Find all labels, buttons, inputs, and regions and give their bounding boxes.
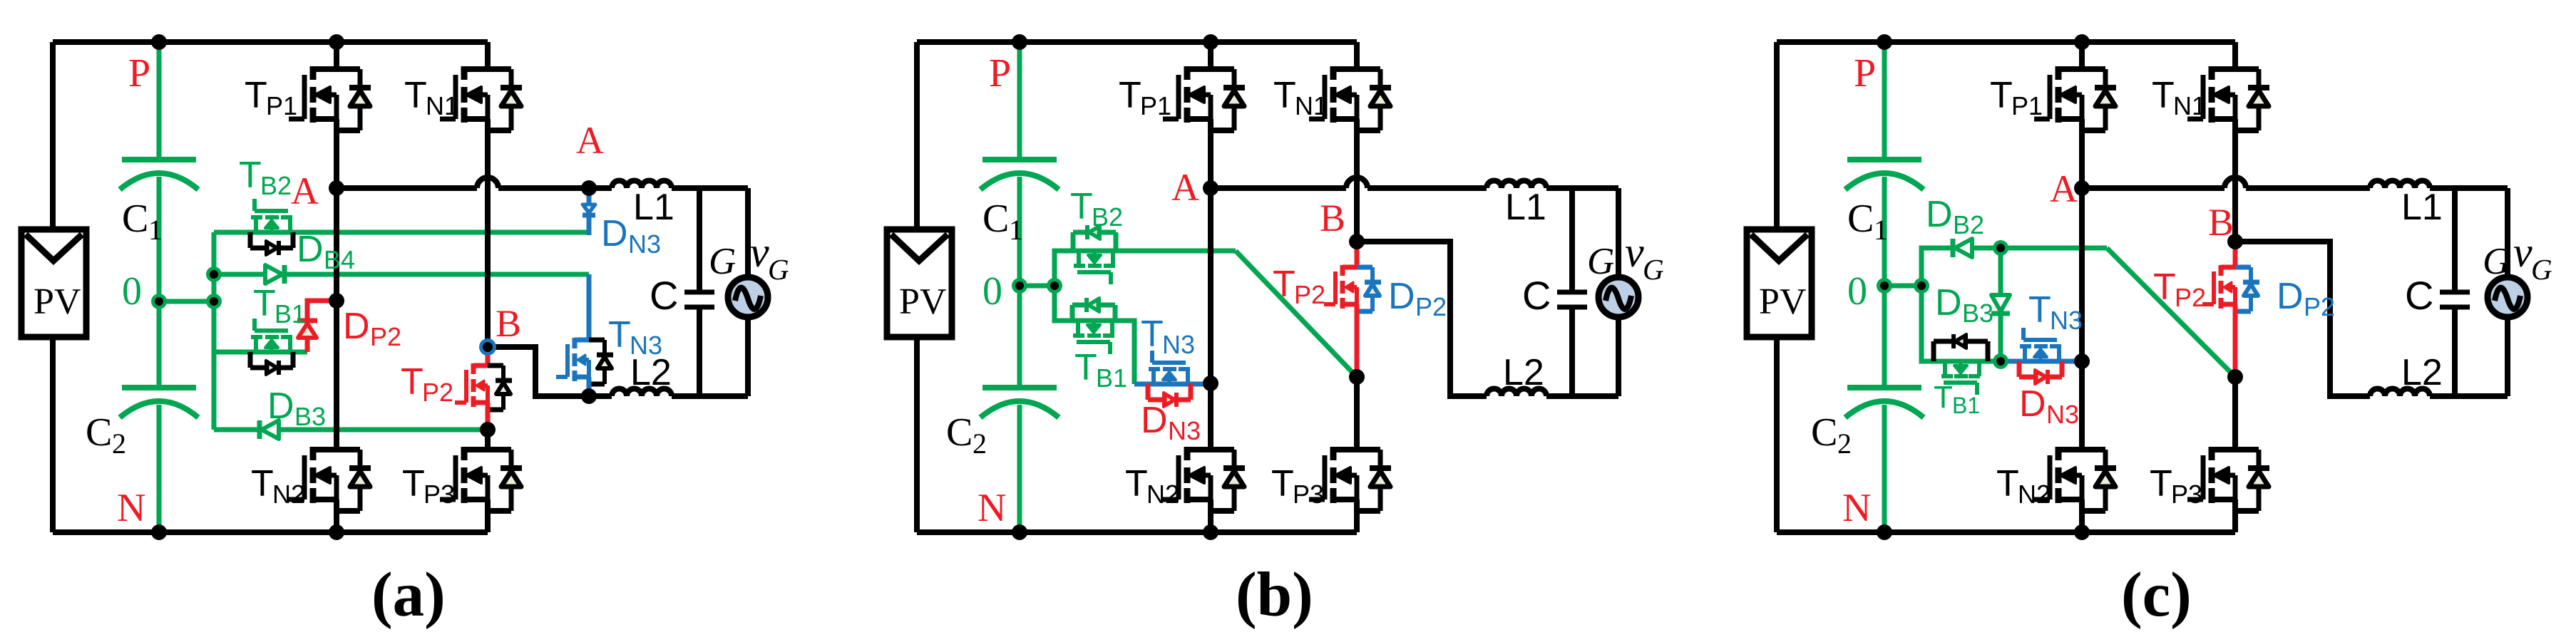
transistor TN1	[2187, 66, 2269, 130]
wire left side down to PV	[914, 42, 920, 229]
svg-text:G: G	[2483, 241, 2510, 282]
svg-text:D: D	[2019, 383, 2046, 425]
diode DB4	[265, 265, 282, 284]
svg-text:P3: P3	[2171, 480, 2202, 509]
node A	[329, 180, 344, 196]
wire TP3 source to bottom rail	[485, 499, 491, 532]
svg-text:B1: B1	[1096, 363, 1127, 393]
AC source vG branch	[745, 188, 751, 279]
transistor TB1	[1934, 334, 1988, 395]
wire TN2 source to bottom rail	[334, 499, 339, 532]
svg-text:N2: N2	[1146, 480, 1179, 509]
wire TB1 row	[214, 350, 307, 355]
svg-text:P3: P3	[424, 480, 455, 509]
svg-text:PV: PV	[34, 281, 81, 322]
wire TN3 row (blue)	[1134, 382, 1211, 387]
wire L1 to right edge	[1546, 185, 1618, 191]
node TP2 lower	[480, 422, 496, 438]
node bottom of left leg	[329, 524, 344, 540]
wire PV to bottom rail	[914, 337, 920, 532]
wire TN2 source to bottom rail	[2079, 499, 2085, 532]
wire right bridge leg upper	[2232, 42, 2238, 69]
svg-text:T: T	[1271, 463, 1294, 504]
node 0	[1877, 278, 1892, 294]
wire node0 to branch split	[1884, 284, 1921, 289]
svg-text:N3: N3	[1162, 330, 1195, 359]
svg-text:P: P	[128, 51, 150, 95]
svg-text:C: C	[1847, 197, 1874, 241]
capacitor C1	[122, 157, 196, 162]
wire right bridge leg upper	[485, 42, 491, 69]
transistor TB1	[1072, 298, 1115, 354]
svg-text:T: T	[2028, 289, 2051, 331]
transistor TP2 red leg segment	[486, 347, 491, 366]
wire left leg A to TN2	[334, 188, 339, 450]
AC source vG	[728, 277, 768, 317]
transistor TB2	[1073, 225, 1116, 284]
wire top rail	[917, 39, 1357, 45]
transistor TP1	[2034, 66, 2116, 130]
node top of left leg	[2074, 34, 2090, 50]
node B	[479, 338, 496, 356]
wire left bridge leg upper	[334, 42, 339, 69]
wire P-to-C1 (green DC-link column)	[157, 42, 162, 160]
wire TP1 source to node A	[334, 119, 339, 188]
wire TN3 source to L2 node	[587, 377, 592, 396]
svg-text:B: B	[2208, 201, 2234, 244]
wire C2-to-N	[1017, 405, 1022, 532]
svg-text:N1: N1	[2173, 91, 2206, 120]
wire TN1 source down to node B	[485, 119, 491, 347]
branch column (green vertical)	[212, 232, 217, 430]
svg-text:T: T	[404, 75, 427, 116]
svg-text:2: 2	[1837, 428, 1852, 460]
svg-text:T: T	[1273, 264, 1295, 305]
branch split down to TB1 row	[1921, 286, 2001, 361]
node DP2 tap	[329, 293, 344, 309]
svg-text:N1: N1	[426, 91, 458, 120]
node bottom of left leg	[2074, 524, 2090, 540]
svg-text:A: A	[576, 119, 604, 162]
branch split up to DB2 row	[1921, 248, 2001, 286]
svg-text:0: 0	[982, 269, 1002, 314]
svg-text:N2: N2	[272, 480, 305, 509]
wire node0 to branch split	[1020, 284, 1054, 289]
transistor TP3	[2187, 447, 2269, 511]
svg-text:L2: L2	[2401, 352, 2443, 393]
svg-text:C: C	[1811, 410, 1837, 455]
svg-text:P3: P3	[1293, 480, 1324, 509]
inductor L1	[1487, 181, 1546, 188]
svg-text:N: N	[977, 486, 1006, 530]
svg-text:G: G	[1587, 241, 1614, 282]
svg-text:D: D	[343, 306, 370, 347]
node P	[1012, 34, 1027, 50]
svg-text:D: D	[267, 385, 294, 427]
wire node A to L1 with crossover hop	[337, 185, 477, 191]
svg-text:B1: B1	[274, 299, 306, 328]
wire C2-to-N	[157, 405, 162, 532]
transistor TN3	[1148, 351, 1191, 407]
svg-text:B1: B1	[1952, 393, 1980, 418]
PV source	[21, 229, 86, 337]
wire right leg lower segment	[1354, 377, 1360, 450]
svg-text:v: v	[2513, 229, 2533, 276]
transistor TN2	[289, 447, 371, 511]
wire PV to bottom rail	[1774, 337, 1780, 532]
svg-text:(c): (c)	[2121, 560, 2192, 630]
transistor TN1	[1309, 66, 1391, 130]
wire P-to-C1 (green DC-link column)	[1882, 42, 1887, 160]
branch split to TB2 (up)	[1054, 251, 1236, 286]
svg-text:L1: L1	[633, 187, 674, 228]
wire L1 to right edge	[672, 185, 748, 191]
node A	[2074, 180, 2090, 196]
svg-text:N: N	[117, 486, 145, 530]
node 0	[151, 294, 167, 309]
inductor L2	[2370, 389, 2430, 397]
wire left bridge leg upper	[2079, 42, 2085, 69]
wire PV to bottom rail	[50, 337, 56, 532]
wire DB4 row	[214, 272, 589, 277]
wire bottom rail	[53, 529, 488, 535]
wire C1-to-C2 through node 0	[1882, 177, 1887, 388]
PV source	[887, 229, 952, 337]
svg-text:T: T	[1996, 463, 2019, 504]
wire TN3 row (blue)	[2001, 359, 2082, 364]
svg-text:P1: P1	[1140, 91, 1171, 120]
node A output	[581, 180, 597, 196]
transistor TP3	[1309, 447, 1391, 511]
svg-text:L2: L2	[1503, 352, 1544, 393]
node top of left leg	[329, 34, 344, 50]
svg-text:B2: B2	[1953, 210, 1984, 239]
svg-text:D: D	[2277, 276, 2304, 317]
svg-text:L1: L1	[2401, 187, 2443, 228]
capacitor C2	[1847, 385, 1921, 390]
svg-text:T: T	[1141, 314, 1164, 355]
svg-text:T: T	[1273, 75, 1296, 116]
AC source vG branch	[2505, 188, 2510, 279]
svg-text:N3: N3	[628, 229, 661, 259]
svg-text:G: G	[709, 241, 736, 282]
wire node0 to branch column	[159, 299, 214, 304]
AC source vG	[1599, 277, 1638, 317]
svg-text:0: 0	[122, 269, 142, 314]
transistor TB1	[250, 319, 293, 375]
svg-text:T: T	[253, 283, 276, 324]
wire TN2 source to bottom rail	[1208, 499, 1213, 532]
node branch split	[1047, 278, 1062, 294]
svg-text:B: B	[1320, 197, 1345, 239]
node TN3 on left leg	[2074, 353, 2090, 369]
wire B to output bottom	[1357, 242, 1487, 396]
wire left side down to PV	[50, 42, 56, 229]
svg-text:N2: N2	[2018, 480, 2051, 509]
svg-text:T: T	[1125, 463, 1148, 504]
svg-text:A: A	[1171, 166, 1199, 209]
capacitor C1	[1847, 157, 1921, 162]
node on branch column (0 row)	[206, 294, 222, 309]
wire left bridge leg upper	[1208, 42, 1213, 69]
svg-text:T: T	[251, 463, 274, 504]
node top of left leg	[1203, 34, 1218, 50]
diode DB3 vertical	[1998, 248, 2003, 295]
node TB1/TN3 junction	[1993, 353, 2008, 369]
svg-text:D: D	[601, 213, 628, 254]
svg-text:T: T	[401, 361, 424, 403]
transistor TP1	[1163, 66, 1245, 130]
svg-text:2: 2	[973, 428, 987, 460]
wire bottom rail	[917, 529, 1357, 535]
branch split to TB1 (down)	[1054, 286, 1134, 384]
transistor TN3	[2019, 328, 2062, 384]
svg-text:B4: B4	[324, 245, 355, 274]
wire B to output bottom	[2235, 242, 2370, 396]
svg-text:0: 0	[1847, 269, 1867, 314]
node branch split	[1914, 278, 1929, 294]
transistor TN2	[1163, 447, 1245, 511]
diagonal link to lower B-leg node	[2107, 248, 2235, 377]
wire TP3 source to bottom rail	[1354, 499, 1360, 532]
node DB2/DB3 junction	[1993, 240, 2008, 256]
wire C1-to-C2 through node 0	[157, 177, 162, 388]
svg-text:G: G	[1643, 253, 1664, 286]
svg-text:B2: B2	[1092, 202, 1123, 232]
transistor TN2	[2034, 447, 2116, 511]
circuit (c)	[1747, 34, 2528, 540]
svg-text:T: T	[402, 463, 425, 504]
svg-text:P2: P2	[422, 378, 453, 407]
svg-text:D: D	[297, 229, 324, 270]
wire C2-to-N	[1882, 405, 1887, 532]
wire DB3 row	[214, 428, 488, 433]
capacitor C2	[982, 385, 1057, 390]
svg-text:PV: PV	[1759, 281, 1806, 322]
diode DB2	[1955, 239, 1972, 257]
circuit (b)	[887, 34, 1638, 540]
node N	[151, 524, 167, 540]
diode DP2 with leads	[307, 301, 337, 321]
svg-text:C: C	[86, 410, 112, 455]
svg-text:T: T	[2150, 463, 2172, 504]
svg-text:P2: P2	[2304, 292, 2335, 321]
svg-text:PV: PV	[899, 281, 946, 322]
svg-text:v: v	[1625, 229, 1644, 276]
node TP2 lower	[2227, 369, 2243, 385]
wire left leg A to TN2	[2079, 188, 2085, 450]
svg-text:P2: P2	[2175, 283, 2206, 312]
svg-text:C: C	[650, 273, 678, 318]
node bottom of left leg	[1203, 524, 1218, 540]
inductor L2	[1487, 389, 1546, 397]
node on branch column (DB4 row)	[206, 266, 222, 282]
svg-text:B2: B2	[260, 171, 292, 200]
transistor TP1	[289, 66, 371, 130]
node N	[1877, 524, 1892, 540]
svg-text:C: C	[982, 197, 1009, 241]
svg-text:A: A	[2050, 167, 2078, 210]
circuit (a)	[21, 34, 768, 540]
svg-text:T: T	[245, 75, 267, 116]
wire node A to L1 with crossover hop	[1211, 185, 1346, 191]
capacitor C branch	[697, 188, 702, 290]
wire DB2 node to diagonal	[2001, 246, 2107, 251]
wire right leg lower segment	[2232, 377, 2238, 450]
capacitor C2	[122, 385, 196, 390]
wire bottom rail	[1777, 529, 2235, 535]
diode DB3	[262, 420, 279, 439]
node P	[151, 34, 167, 50]
svg-text:C: C	[122, 197, 148, 241]
inductor L2	[612, 389, 672, 397]
svg-text:P2: P2	[1294, 280, 1325, 309]
svg-text:2: 2	[112, 428, 126, 460]
svg-text:L1: L1	[1505, 187, 1546, 228]
transistor TN1	[440, 66, 522, 130]
svg-text:P1: P1	[2011, 91, 2043, 120]
svg-text:T: T	[2153, 266, 2176, 308]
AC source vG branch	[1616, 188, 1621, 279]
transistor TN3	[556, 338, 613, 384]
transistor TP2 red leg segment	[1355, 242, 1360, 267]
wire DB4-row to TN3 (blue drop)	[587, 274, 592, 340]
wire TB2 row	[214, 230, 589, 235]
svg-text:P2: P2	[370, 322, 401, 351]
svg-text:D: D	[1141, 400, 1168, 441]
svg-text:N3: N3	[630, 331, 662, 360]
transistor TP3	[440, 447, 522, 511]
svg-text:D: D	[1935, 282, 1962, 323]
AC source vG	[2488, 277, 2528, 317]
svg-text:A: A	[291, 170, 319, 212]
PV source	[1747, 229, 1812, 337]
wire TN1 source down to node B	[2232, 119, 2238, 242]
svg-text:B: B	[496, 302, 521, 345]
svg-text:C: C	[946, 410, 973, 455]
node B	[1349, 234, 1365, 249]
svg-text:P2: P2	[1415, 292, 1447, 321]
svg-text:N: N	[1842, 486, 1871, 530]
wire TP3 source to bottom rail	[2232, 499, 2238, 532]
capacitor C1	[982, 157, 1057, 162]
wire B to output bottom	[488, 347, 589, 396]
svg-text:D: D	[1926, 194, 1953, 235]
wire TN1 source down to node B	[1354, 119, 1360, 242]
svg-text:(b): (b)	[1236, 560, 1313, 630]
svg-text:G: G	[768, 253, 789, 286]
svg-text:T: T	[1934, 380, 1953, 415]
svg-text:1: 1	[1009, 214, 1023, 246]
svg-text:N1: N1	[1295, 91, 1328, 120]
svg-text:P1: P1	[266, 91, 297, 120]
svg-text:T: T	[2152, 75, 2175, 116]
wire TP1 source to node A	[1208, 119, 1213, 188]
capacitor C branch	[1569, 188, 1575, 290]
wire right leg lower segment	[485, 430, 491, 450]
svg-text:P: P	[1854, 51, 1876, 95]
wire left leg A to TN2	[1208, 188, 1213, 450]
wire P-to-C1 (green DC-link column)	[1017, 42, 1022, 160]
node N	[1012, 524, 1027, 540]
svg-text:1: 1	[148, 214, 163, 246]
node P	[1877, 34, 1892, 50]
svg-text:T: T	[1074, 347, 1097, 388]
wire right bridge leg upper	[1354, 42, 1360, 69]
wire left side down to PV	[1774, 42, 1780, 229]
svg-text:C: C	[2405, 273, 2433, 318]
wire C1-to-C2 through node 0	[1017, 177, 1022, 388]
wire TP1 source to node A	[2079, 119, 2085, 188]
svg-text:T: T	[1119, 75, 1141, 116]
wire L1 to right edge	[2430, 185, 2508, 191]
node B	[2227, 234, 2243, 249]
svg-text:N3: N3	[2050, 306, 2083, 335]
node 0	[1012, 278, 1027, 294]
svg-text:T: T	[608, 314, 631, 356]
transistor TB2	[250, 199, 293, 255]
svg-text:T: T	[239, 155, 262, 196]
svg-text:v: v	[750, 229, 769, 276]
wire top rail	[1777, 39, 2235, 45]
svg-text:T: T	[1070, 186, 1093, 227]
svg-text:G: G	[2531, 253, 2552, 286]
svg-text:1: 1	[1874, 214, 1888, 246]
capacitor C branch	[2452, 188, 2458, 290]
wire node A to L1 with crossover hop	[2082, 185, 2225, 191]
svg-text:T: T	[1990, 75, 2013, 116]
svg-text:B3: B3	[294, 402, 326, 431]
svg-text:(a): (a)	[371, 560, 446, 630]
node A	[1203, 180, 1218, 196]
inductor L1	[2370, 181, 2430, 188]
svg-text:D: D	[1388, 276, 1415, 317]
node TP2 lower	[1349, 369, 1365, 385]
svg-text:N3: N3	[1168, 416, 1201, 445]
node L2 junction	[581, 388, 597, 404]
wire top rail	[53, 39, 488, 45]
svg-text:C: C	[1522, 273, 1551, 318]
svg-text:N3: N3	[2046, 400, 2079, 429]
node TN3 on left leg	[1203, 376, 1218, 391]
transistor TP2 red leg segment	[2233, 242, 2238, 267]
svg-text:P: P	[989, 51, 1011, 95]
diagonal link TB2 to lower B-leg node	[1236, 251, 1357, 377]
svg-text:B3: B3	[1962, 299, 1993, 328]
inductor L1	[612, 181, 672, 188]
diode DN3	[587, 187, 592, 204]
